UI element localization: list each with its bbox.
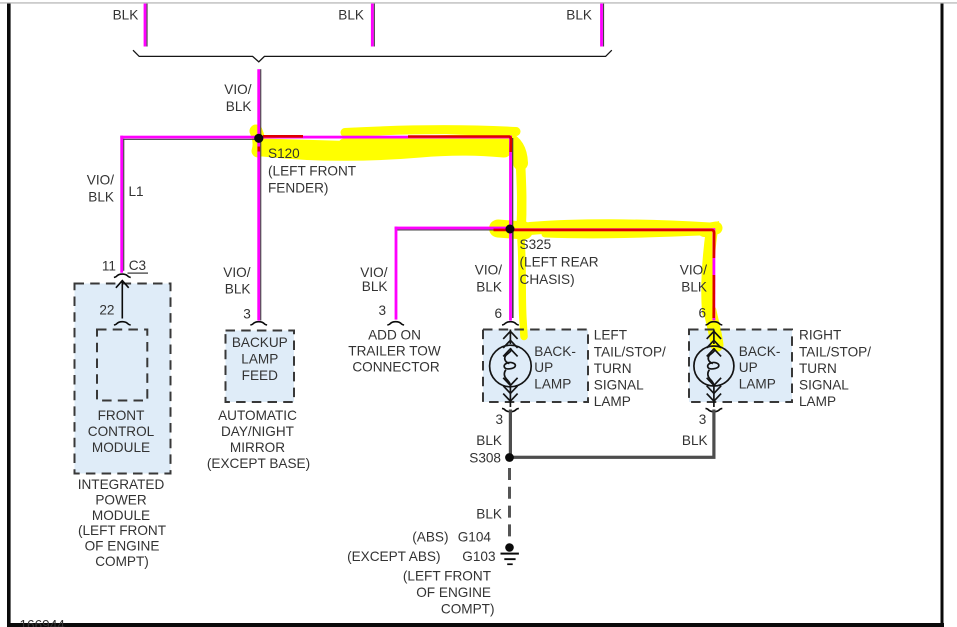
svg-text:BACK-: BACK- [739,344,781,359]
svg-text:(LEFT FRONT: (LEFT FRONT [403,568,491,583]
frame left border [7,4,11,627]
svg-text:SIGNAL: SIGNAL [594,378,644,393]
svg-text:OF ENGINE: OF ENGINE [85,539,160,554]
svg-text:FEED: FEED [242,368,278,383]
svg-text:3: 3 [378,303,386,318]
wire BLK top 2 [374,4,375,47]
svg-text:166944: 166944 [20,617,66,627]
svg-text:BACK-: BACK- [534,344,576,359]
svg-text:(LEFT REAR: (LEFT REAR [520,255,599,270]
svg-text:(ABS): (ABS) [412,529,448,544]
wire BLK top 3 [603,4,604,47]
svg-text:BLK: BLK [225,281,251,296]
highlighter blob around S120 splice [256,131,259,151]
svg-text:BLK: BLK [338,7,364,22]
svg-text:COMPT): COMPT) [95,554,149,569]
ground BLK wire left lamp to S308 [509,410,512,458]
svg-text:3: 3 [699,412,707,427]
svg-text:C3: C3 [129,258,146,273]
svg-text:BLK: BLK [362,279,388,294]
svg-text:LAMP: LAMP [799,394,836,409]
svg-text:VIO/: VIO/ [475,263,502,278]
svg-text:TRAILER TOW: TRAILER TOW [348,344,441,359]
dashed box: backup lamp feed [226,331,295,403]
box fill: right backup lamp [689,330,792,403]
svg-text:(EXCEPT ABS): (EXCEPT ABS) [347,549,440,564]
box fill: left backup lamp [483,330,588,403]
ground BLK wire right lamp vertical [712,410,715,458]
svg-text:POWER: POWER [95,492,147,507]
svg-text:MIRROR: MIRROR [230,440,285,455]
connector 3 arc backup lamp feed [250,322,267,325]
svg-text:BACKUP: BACKUP [232,335,288,350]
connector 6 arc left lamp [502,322,519,325]
brace grouping top BLK wires [133,50,612,62]
wire S325 right horizontal [510,228,715,231]
svg-text:RIGHT: RIGHT [799,328,841,343]
connector 11/C3 arc [114,274,131,277]
wire S325 left horizontal [397,229,507,230]
svg-text:VIO/: VIO/ [224,82,251,97]
frame right border [941,4,944,627]
svg-text:MODULE: MODULE [92,440,150,455]
box fill: integrated power module [75,284,171,474]
wire S120 right horizontal [259,136,512,139]
dashed box: front control module inner [97,330,147,401]
highlighter vertical band to left lamp [521,240,524,337]
junction dot S308 [505,453,514,462]
svg-text:ADD ON: ADD ON [368,327,421,342]
dashed box: right backup lamp [689,330,792,403]
svg-text:TURN: TURN [594,361,632,376]
ipm internal pin arrow [114,281,131,325]
red through S325 and corner down right lamp [494,230,715,258]
svg-text:3: 3 [495,412,503,427]
red right lamp vertical lower part [712,275,715,318]
svg-text:S325: S325 [520,237,552,252]
svg-text:6: 6 [698,305,706,320]
svg-text:MODULE: MODULE [92,508,150,523]
red stub below S120 dot [257,147,260,152]
connector 6 arc right lamp [706,322,723,325]
svg-text:CONTROL: CONTROL [88,424,155,439]
svg-text:SIGNAL: SIGNAL [799,378,849,393]
svg-text:LAMP: LAMP [241,352,278,367]
svg-text:BLK: BLK [681,280,707,295]
svg-text:VIO/: VIO/ [87,172,114,187]
wire vertical S325 down to left lamp [512,229,514,318]
highlighter stub over right lamp connector [710,311,717,345]
svg-text:INTEGRATED: INTEGRATED [78,477,165,492]
svg-text:COMPT): COMPT) [441,602,495,617]
svg-text:VIO/: VIO/ [360,265,387,280]
dashed box: integrated power module [75,284,171,474]
svg-text:LAMP: LAMP [594,394,631,409]
svg-text:G103: G103 [462,549,495,564]
svg-text:22: 22 [99,303,114,318]
dashed box: left backup lamp [483,330,588,403]
highlighter band below S120 horizontal wire [263,148,504,153]
svg-text:CONNECTOR: CONNECTOR [352,360,440,375]
right lamp symbol [694,330,734,408]
svg-text:AUTOMATIC: AUTOMATIC [218,408,297,423]
highlighter vertical band right of wire x=510 [521,163,522,232]
svg-text:BLK: BLK [566,7,592,22]
highlighter band above S120 horizontal wire right part [345,130,516,133]
highlighter band along S325 right horizontal [530,226,716,229]
svg-text:FRONT: FRONT [98,408,145,423]
svg-text:BLK: BLK [476,433,502,448]
svg-text:(EXCEPT BASE): (EXCEPT BASE) [207,456,310,471]
wire left vertical to C3 [123,139,124,271]
svg-text:TURN: TURN [799,361,837,376]
svg-text:BLK: BLK [476,280,502,295]
red stub right of S120 [263,135,303,138]
svg-text:11: 11 [102,259,116,274]
box fill: backup lamp feed [226,331,295,403]
frame top border [0,2,957,4]
highlighter vertical band right lamp drop [704,229,712,312]
junction dot S325 [506,225,515,234]
junction dot S120 [254,134,263,143]
wires: magenta with gray shadow [120,4,715,321]
ground BLK wire S308 horizontal [509,456,716,459]
svg-text:TAIL/STOP/: TAIL/STOP/ [799,344,871,359]
dashed ground wire [508,468,511,537]
highlighter blob at S325 [498,229,524,231]
connector 3 arc below right lamp [706,408,723,411]
svg-text:VIO/: VIO/ [680,263,707,278]
svg-text:BLK: BLK [113,7,139,22]
svg-text:OF ENGINE: OF ENGINE [416,585,491,600]
svg-text:DAY/NIGHT: DAY/NIGHT [221,424,294,439]
svg-text:CHASIS): CHASIS) [520,272,575,287]
svg-text:VIO/: VIO/ [223,265,250,280]
svg-text:(LEFT FRONT: (LEFT FRONT [268,164,356,179]
svg-text:LAMP: LAMP [739,376,776,391]
highlighter corner blob at x=510 [506,139,521,163]
svg-text:LAMP: LAMP [534,376,571,391]
svg-text:FENDER): FENDER) [268,181,328,196]
svg-text:UP: UP [534,360,553,375]
svg-text:S120: S120 [268,146,300,161]
connector 3 arc trailer tow [387,322,404,325]
red over top horizontal right part and corner down [408,137,511,153]
wire BLK top 1 [146,4,147,47]
left lamp symbol [490,330,532,408]
ground symbol bars [501,553,519,555]
wire S120 left horizontal [123,139,259,140]
wire trailer vertical [395,227,398,320]
wire right lamp vertical [713,228,716,320]
svg-text:TAIL/STOP/: TAIL/STOP/ [594,344,666,359]
svg-text:L1: L1 [129,184,144,199]
svg-text:(LEFT FRONT: (LEFT FRONT [78,523,166,538]
svg-text:UP: UP [739,360,758,375]
ground symbol dot [505,543,514,552]
connector 3 arc below left lamp [502,408,519,411]
svg-text:BLK: BLK [226,99,252,114]
svg-text:LEFT: LEFT [594,328,627,343]
wire vertical S120 corner down to S325 [512,138,513,229]
wire center vertical brace to S120 to feed connector [260,69,261,320]
svg-text:G104: G104 [458,529,492,544]
svg-text:BLK: BLK [88,189,114,204]
frame bottom border [7,623,944,627]
svg-text:BLK: BLK [476,506,502,521]
svg-text:6: 6 [494,306,502,321]
svg-text:BLK: BLK [682,433,708,448]
red trace highlights [259,136,714,318]
svg-text:3: 3 [243,307,251,322]
svg-text:S308: S308 [469,450,501,465]
